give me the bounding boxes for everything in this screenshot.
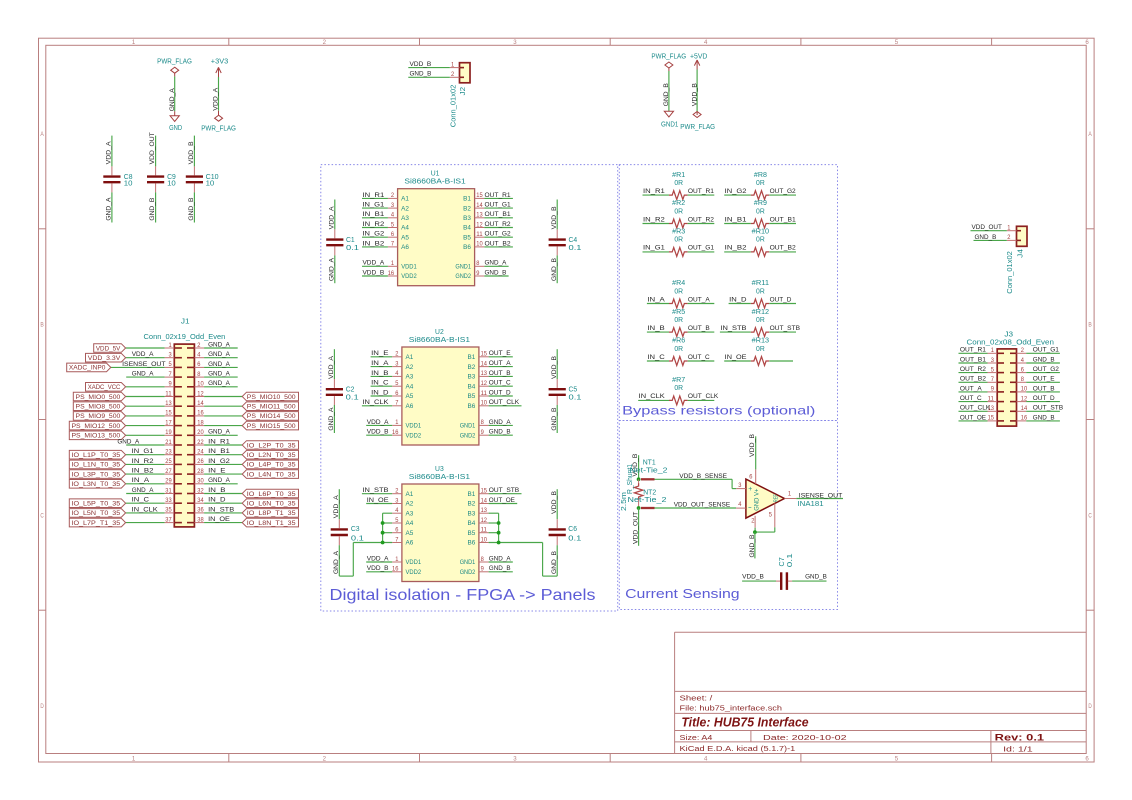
svg-text:GND2: GND2 (460, 569, 476, 576)
wire / net label IN_A (371, 366, 393, 368)
J1 pin 14 (194, 405, 204, 407)
J1 pin 12 (194, 396, 204, 398)
svg-text:IO_L4N_T0_35: IO_L4N_T0_35 (247, 471, 296, 478)
svg-text:OUT_G2: OUT_G2 (1033, 366, 1059, 373)
svg-text:0R: 0R (756, 237, 765, 244)
junction (497, 521, 501, 525)
svg-text:IN_B1: IN_B1 (208, 448, 230, 455)
svg-text:13: 13 (481, 507, 488, 514)
svg-text:0.1: 0.1 (568, 536, 581, 543)
wire GND_A (174, 76, 176, 111)
svg-text:VDD1: VDD1 (406, 559, 422, 566)
wire / net label OUT_A (688, 303, 715, 305)
svg-text:+: + (748, 486, 752, 493)
svg-text:12: 12 (476, 221, 483, 228)
hierarchical label IO_L8P_T1_35 (242, 509, 298, 518)
wire / net label OUT_C (959, 401, 988, 403)
svg-text:VDD_A: VDD_A (367, 555, 389, 562)
svg-text:GND_B: GND_B (975, 234, 997, 241)
wire / net label IN_C (371, 385, 393, 387)
wire / net label VDD_A (366, 561, 392, 563)
svg-text:OUT_B: OUT_B (688, 325, 710, 332)
svg-text:PS_MIO9_500: PS_MIO9_500 (76, 413, 121, 420)
U2 pin 7 (A6) (392, 405, 402, 407)
wire / net label IN_B (647, 331, 669, 333)
svg-text:U2: U2 (435, 329, 444, 336)
svg-text:0R: 0R (674, 385, 683, 392)
svg-text:0.1: 0.1 (346, 395, 359, 402)
svg-text:IN_D: IN_D (729, 296, 746, 303)
svg-text:OUT_B1: OUT_B1 (485, 211, 511, 218)
wire (204, 522, 242, 524)
svg-text:A4: A4 (406, 520, 414, 527)
svg-text:IN_R1: IN_R1 (208, 438, 230, 445)
svg-text:OUT_E: OUT_E (489, 350, 511, 357)
svg-text:Conn_02x19_Odd_Even: Conn_02x19_Odd_Even (144, 334, 226, 341)
hierarchical label IO_L4N_T0_35 (242, 470, 298, 479)
svg-text:VDD_OUT: VDD_OUT (633, 512, 640, 544)
J1 pin 1 (165, 347, 175, 349)
svg-text:OUT_STB: OUT_STB (489, 487, 520, 494)
U3 pin 15 (B1) (479, 493, 489, 495)
wire GND_B to J2 pin2 (408, 76, 450, 78)
svg-text:C2: C2 (346, 387, 355, 394)
svg-text:0R: 0R (756, 288, 765, 295)
svg-text:B3: B3 (463, 215, 471, 222)
wire / net label IN_B1 (724, 223, 751, 225)
wire / net label OUT_G2 (484, 236, 513, 238)
wire GND_B (754, 532, 756, 558)
svg-text:15: 15 (165, 410, 172, 417)
svg-text:GND_A: GND_A (117, 438, 139, 445)
svg-text:GND_A: GND_A (208, 380, 230, 387)
hierarchical label PS_MIO14_500 (242, 412, 298, 421)
U1 pin 9 (GND2) (475, 275, 485, 277)
svg-text:GND_A: GND_A (485, 260, 507, 267)
wire (204, 396, 242, 398)
capacitor C10 (193, 136, 195, 167)
wire / net label GND_B (489, 571, 513, 573)
hierarchical label VDD_3.3V (86, 353, 126, 362)
svg-text:OUT_A: OUT_A (489, 360, 511, 367)
svg-text:IO_L8P_T1_35: IO_L8P_T1_35 (247, 510, 296, 517)
svg-text:Title: HUB75 Interface: Title: HUB75 Interface (681, 714, 808, 729)
svg-text:OUT_A: OUT_A (960, 385, 982, 392)
capacitor C6 (556, 489, 558, 519)
svg-text:#R13: #R13 (752, 338, 770, 345)
svg-text:PWR_FLAG: PWR_FLAG (680, 124, 715, 131)
wire (204, 512, 242, 514)
svg-text:VDD_B: VDD_B (362, 269, 384, 276)
svg-text:VDD_3.3V: VDD_3.3V (88, 355, 121, 362)
wire U3 pin7 row (353, 542, 392, 544)
svg-text:IN_B1: IN_B1 (362, 211, 384, 218)
svg-text:Si8660BA-B-IS1: Si8660BA-B-IS1 (409, 474, 470, 481)
J1 pin 10 (194, 386, 204, 388)
svg-text:0R: 0R (674, 317, 683, 324)
svg-text:7: 7 (169, 371, 173, 378)
wire VDD_OUT (638, 508, 640, 546)
svg-text:35: 35 (165, 507, 172, 514)
svg-text:IN_A: IN_A (647, 296, 665, 303)
svg-text:4: 4 (391, 212, 395, 219)
U3 pin 14 (B2) (479, 503, 489, 505)
svg-text:A6: A6 (406, 540, 414, 547)
U3 pin 16 (VDD2) (392, 571, 402, 573)
svg-text:OUT_C: OUT_C (688, 354, 710, 361)
svg-text:26: 26 (197, 458, 204, 465)
wire (126, 347, 165, 349)
svg-text:PS_MIO8_500: PS_MIO8_500 (76, 404, 121, 411)
svg-text:GND_A: GND_A (489, 555, 511, 562)
svg-text:GND_B: GND_B (489, 565, 511, 572)
svg-text:A2: A2 (401, 205, 409, 212)
svg-text:J4: J4 (1018, 249, 1025, 258)
junction (497, 541, 501, 545)
svg-text:GND_B: GND_B (551, 551, 558, 574)
svg-text:IO_L2P_T0_35: IO_L2P_T0_35 (247, 442, 296, 449)
U3 pin 7 (A6) (392, 542, 402, 544)
svg-text:C4: C4 (569, 237, 578, 244)
wire / net label IN_R2 (362, 227, 388, 229)
svg-text:GND_B: GND_B (188, 197, 195, 220)
svg-text:Net-Tie_2: Net-Tie_2 (628, 497, 667, 504)
wire / net label GND_A (484, 265, 508, 267)
svg-text:4: 4 (395, 370, 399, 377)
svg-text:IN_OE: IN_OE (208, 516, 230, 523)
svg-text:IN_OE: IN_OE (367, 497, 389, 504)
svg-text:IO_L8N_T1_35: IO_L8N_T1_35 (247, 520, 296, 527)
svg-text:1: 1 (451, 61, 455, 68)
hierarchical label IO_L2P_T0_35 (242, 441, 298, 450)
svg-text:IN_STB: IN_STB (362, 487, 389, 494)
wire / net label OUT_STB (489, 493, 522, 495)
wire / net label OUT_B (688, 331, 715, 333)
wire / net label OUT_D (489, 395, 513, 397)
svg-text:OUT_D: OUT_D (770, 296, 792, 303)
hierarchical label PS_MIO9_500 (73, 412, 125, 421)
svg-text:4: 4 (1021, 357, 1025, 364)
wire / net label IN_B1 (362, 217, 388, 219)
J3 pin 5 (988, 372, 998, 374)
svg-text:IN_CLK: IN_CLK (132, 506, 159, 513)
svg-text:#R2: #R2 (672, 200, 685, 207)
svg-text:Rev: 0.1: Rev: 0.1 (995, 733, 1044, 743)
wire / net label IN_R1 (362, 197, 388, 199)
wire / net label VDD_B (362, 275, 388, 277)
svg-text:3: 3 (395, 497, 399, 504)
wire / net label GND_B (484, 275, 508, 277)
U1 pin 14 (B2) (475, 207, 485, 209)
svg-text:VDD_A: VDD_A (213, 87, 220, 110)
J3 pin 7 (988, 381, 998, 383)
svg-text:GND_A: GND_A (132, 487, 154, 494)
svg-text:#R6: #R6 (672, 338, 685, 345)
svg-text:23: 23 (165, 449, 172, 456)
wire (126, 434, 165, 436)
svg-text:A4: A4 (401, 225, 409, 232)
svg-text:2: 2 (323, 756, 327, 763)
svg-text:0R: 0R (674, 237, 683, 244)
svg-text:8: 8 (197, 371, 201, 378)
svg-text:IN_B2: IN_B2 (132, 468, 154, 475)
svg-text:2: 2 (197, 342, 201, 349)
svg-text:OUT_D: OUT_D (1033, 395, 1055, 402)
svg-text:Sheet: /: Sheet: / (680, 694, 714, 703)
U2 pin 15 (B1) (479, 356, 489, 358)
U1 pin 6 (A5) (388, 236, 398, 238)
svg-text:B: B (1088, 322, 1091, 329)
svg-text:8: 8 (481, 419, 485, 426)
J1 pin 21 (165, 444, 175, 446)
U3 pin 2 (A1) (392, 493, 402, 495)
U3 pin 3 (A2) (392, 503, 402, 505)
wire / net label OUT_G1 (688, 251, 715, 253)
svg-text:11: 11 (481, 527, 488, 534)
wire (126, 463, 165, 465)
wire (204, 376, 238, 378)
wire (204, 444, 242, 446)
svg-text:GND2: GND2 (460, 432, 476, 439)
svg-text:J2: J2 (460, 87, 467, 96)
wire VDD_B_SENSE (655, 478, 733, 480)
J3 pin 4 (1017, 362, 1027, 364)
J1 pin 33 (165, 502, 175, 504)
svg-text:IO_L5P_T0_35: IO_L5P_T0_35 (71, 501, 120, 508)
svg-text:6: 6 (395, 527, 399, 534)
svg-text:#R7: #R7 (672, 377, 685, 384)
svg-text:22: 22 (197, 439, 204, 446)
wire / net label GND_A (489, 424, 513, 426)
J1 pin 30 (194, 483, 204, 485)
wire U3 pin10 row (489, 542, 543, 544)
svg-text:6: 6 (197, 361, 201, 368)
svg-text:7: 7 (395, 400, 399, 407)
wire / net label GND_B (1026, 420, 1060, 422)
svg-text:GND_B: GND_B (149, 197, 156, 220)
ground GND (174, 111, 176, 116)
wire (126, 405, 165, 407)
wire (383, 532, 393, 534)
hierarchical label IO_L5N_T0_35 (69, 509, 125, 518)
svg-text:+5VD: +5VD (690, 53, 707, 60)
svg-text:11: 11 (481, 390, 488, 397)
svg-text:GND_A: GND_A (208, 429, 230, 436)
wire (126, 473, 165, 475)
J1 pin 16 (194, 415, 204, 417)
hierarchical label IO_L3P_T0_35 (69, 470, 125, 479)
svg-text:GND1: GND1 (460, 423, 476, 430)
svg-text:VDD_B: VDD_B (410, 61, 432, 68)
svg-text:IN_R2: IN_R2 (132, 458, 154, 465)
wire / net label IN_B2 (362, 246, 388, 248)
svg-text:VDD_B: VDD_B (749, 434, 756, 457)
svg-text:IN_A: IN_A (371, 360, 389, 367)
svg-text:IO_L1N_T0_35: IO_L1N_T0_35 (71, 462, 120, 469)
svg-text:B1: B1 (468, 354, 476, 361)
svg-text:GND_A: GND_A (208, 361, 230, 368)
wire (204, 425, 242, 427)
svg-text:OUT_B: OUT_B (1033, 385, 1055, 392)
svg-text:4: 4 (704, 756, 708, 763)
ground GND1 (664, 111, 673, 117)
hierarchical label PS_MIO15_500 (242, 421, 298, 430)
svg-text:15: 15 (481, 488, 488, 495)
svg-text:32: 32 (197, 487, 204, 494)
J1 pin 2 (194, 347, 204, 349)
svg-text:21: 21 (165, 439, 172, 446)
U1 pin 3 (A2) (388, 207, 398, 209)
svg-text:4: 4 (395, 507, 399, 514)
U2 pin 8 (GND1) (479, 424, 489, 426)
svg-text:IN_C: IN_C (371, 380, 388, 387)
svg-text:Date: 2020-10-02: Date: 2020-10-02 (763, 733, 847, 742)
svg-text:GND_B: GND_B (410, 71, 432, 78)
svg-text:OUT_D: OUT_D (489, 389, 511, 396)
wire / net label IN_B2 (724, 251, 751, 253)
J1 pin 24 (194, 454, 204, 456)
net tie NT1 (641, 478, 655, 480)
svg-text:13: 13 (165, 400, 172, 407)
svg-text:IO_L1P_T0_35: IO_L1P_T0_35 (71, 452, 120, 459)
svg-text:IN_OE: IN_OE (725, 354, 747, 361)
wire / net label OUT_B1 (769, 223, 796, 225)
svg-text:IN_B2: IN_B2 (362, 240, 384, 247)
wire / net label IN_A (647, 303, 669, 305)
svg-text:3: 3 (391, 202, 395, 209)
J1 pin 3 (165, 357, 175, 359)
svg-text:VDD1: VDD1 (401, 264, 417, 271)
svg-text:GND_A: GND_A (169, 88, 176, 111)
U3 pin 6 (A5) (392, 532, 402, 534)
svg-text:Current Sensing: Current Sensing (625, 587, 740, 601)
wire / net label IN_STB (362, 493, 392, 495)
wire / net label OUT_C (489, 385, 513, 387)
wire / net label IN_G1 (643, 251, 670, 253)
wire / net label IN_C (647, 360, 669, 362)
svg-text:IN_E: IN_E (208, 468, 226, 475)
svg-text:OUT_C: OUT_C (960, 395, 982, 402)
wire VDD_A (218, 77, 220, 111)
svg-text:2: 2 (751, 518, 755, 525)
J1 pin 25 (165, 463, 175, 465)
svg-text:IO_L4P_T0_35: IO_L4P_T0_35 (247, 462, 296, 469)
svg-text:38: 38 (197, 516, 204, 523)
svg-text:Id: 1/1: Id: 1/1 (1003, 744, 1033, 753)
svg-text:5: 5 (895, 756, 899, 763)
U2 pin 16 (VDD2) (392, 434, 402, 436)
wire / net label IN_OE (724, 360, 751, 362)
U1 pin 11 (B5) (475, 236, 485, 238)
svg-text:1: 1 (132, 756, 136, 763)
svg-text:B4: B4 (463, 225, 471, 232)
svg-text:5: 5 (169, 361, 173, 368)
svg-text:5: 5 (769, 511, 773, 518)
svg-text:8: 8 (476, 260, 480, 267)
svg-text:0R: 0R (756, 180, 765, 187)
capacitor C3 (338, 489, 340, 519)
wire (769, 360, 793, 362)
junction (637, 506, 641, 510)
svg-text:IO_L2N_T0_35: IO_L2N_T0_35 (247, 452, 296, 459)
wire ref to gnd (755, 531, 775, 533)
svg-text:14: 14 (481, 360, 488, 367)
svg-text:#R1: #R1 (672, 172, 685, 179)
svg-text:IN_R1: IN_R1 (362, 192, 384, 199)
svg-text:GND1: GND1 (460, 559, 476, 566)
U2 pin 2 (A1) (392, 356, 402, 358)
svg-text:14: 14 (197, 400, 204, 407)
junction (753, 530, 757, 534)
J1 pin 31 (165, 493, 175, 495)
connector J1 (174, 344, 194, 527)
svg-text:GND_B: GND_B (485, 269, 507, 276)
svg-text:B1: B1 (468, 491, 476, 498)
svg-text:B3: B3 (468, 510, 476, 517)
U2 pin 14 (B2) (479, 366, 489, 368)
svg-text:IN_B1: IN_B1 (725, 216, 747, 223)
svg-text:6: 6 (1021, 366, 1025, 373)
svg-text:2: 2 (1007, 234, 1011, 241)
svg-text:#R10: #R10 (752, 229, 770, 236)
svg-text:B4: B4 (468, 520, 476, 527)
wire (204, 386, 238, 388)
wire / net label OUT_G2 (769, 194, 796, 196)
svg-text:OUT_G2: OUT_G2 (485, 231, 511, 238)
svg-text:IN_G1: IN_G1 (643, 245, 665, 252)
svg-text:IN_R2: IN_R2 (643, 216, 665, 223)
junction (497, 531, 501, 535)
wire VDD_B (696, 70, 698, 112)
wire / net label OUT_B (1026, 391, 1060, 393)
U2 pin 12 (B4) (479, 385, 489, 387)
svg-text:REF: REF (773, 494, 779, 502)
svg-text:14: 14 (476, 202, 483, 209)
svg-text:GND_A: GND_A (328, 407, 335, 430)
svg-text:C1: C1 (346, 237, 355, 244)
J3 pin 16 (1017, 420, 1027, 422)
svg-text:1: 1 (395, 419, 399, 426)
wire (204, 483, 238, 485)
hierarchical label IO_L2N_T0_35 (242, 450, 298, 459)
wire (489, 532, 499, 534)
svg-text:GND_A: GND_A (208, 477, 230, 484)
svg-text:16: 16 (197, 410, 204, 417)
wire (126, 396, 165, 398)
capacitor C1 (334, 200, 336, 230)
U1 pin 8 (GND1) (475, 265, 485, 267)
svg-text:B5: B5 (468, 393, 476, 400)
svg-text:37: 37 (165, 516, 172, 523)
svg-text:XADC_INP0: XADC_INP0 (69, 365, 106, 372)
J1 pin 23 (165, 454, 175, 456)
svg-text:#R5: #R5 (672, 309, 685, 316)
wire (204, 366, 238, 368)
wire / net label GND_A (489, 561, 513, 563)
svg-text:GND_A: GND_A (208, 351, 230, 358)
J1 pin 32 (194, 493, 204, 495)
hierarchical label IO_L3N_T0_35 (69, 480, 125, 489)
svg-text:OUT_CLK: OUT_CLK (489, 399, 520, 406)
svg-text:B1: B1 (463, 196, 471, 203)
svg-text:GND1: GND1 (455, 264, 471, 271)
svg-text:3: 3 (169, 352, 173, 359)
svg-text:9: 9 (481, 566, 485, 573)
wire / net label OUT_E (489, 356, 513, 358)
wire (126, 376, 164, 378)
svg-text:PS_MIO15_500: PS_MIO15_500 (247, 423, 296, 430)
capacitor C2 (333, 349, 335, 379)
